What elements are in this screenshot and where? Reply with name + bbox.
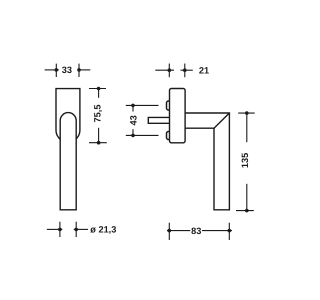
dimension 43 extension line bottom [126,134,159,136]
dimension 33 dot left [55,68,59,72]
svg-text:33: 33 [62,65,72,75]
handle front view: neck/shaft with rounded top edge [60,113,76,210]
svg-text:75,5: 75,5 [92,105,102,123]
svg-text:83: 83 [191,226,201,236]
rosette fixing tab top [167,101,170,110]
dimension dia 21,3 dot left [58,228,62,232]
dimension 135 bottom cross [236,210,254,212]
dimension 43 dot top [131,104,135,108]
rosette fixing tab bottom [167,132,170,140]
dimension dia 21,3 dot right [74,228,78,232]
dimension 75,5 top cross [89,88,106,90]
dimension 21 extension line left [168,64,170,78]
dimension 33 line segments [45,69,91,71]
dimension 33 extension line right [78,64,80,77]
dimension 75,5 bottom cross [89,142,107,144]
svg-text:43: 43 [129,115,139,125]
dimension 43 extension line top [126,104,159,106]
dimension 43 vertical line segments [132,105,134,135]
dimension 135 dot bottom [245,209,249,213]
dimension dia 21,3 line segments [47,228,88,230]
dimension 33 dot right [77,68,81,72]
svg-text:135: 135 [240,153,250,168]
dimension 33 extension line left [55,64,57,77]
dimension 21 extension line right [184,64,186,78]
dimension dia 21,3 extension line left [59,222,61,237]
svg-text:21: 21 [199,65,209,75]
dimension 21 dot left [168,68,172,72]
dimension 75,5 dot bottom [97,141,101,145]
dimension 83 extension line right [228,223,230,240]
dimension 21 dot right [183,68,187,72]
dimension 83 dot right [228,229,232,233]
dimension 83 line segments [167,230,232,232]
dimension 21 line segments [155,69,193,71]
handle front view: grip outer outline [56,89,80,140]
dimension 135 vertical line segments [246,113,248,211]
dimension 83 dot left [168,229,172,233]
dimension 75,5 vertical line [98,89,100,143]
dimension 83 extension line left [168,223,170,240]
dimension dia 21,3 extension line right [75,222,77,237]
dimension 75,5 dot top [97,87,101,91]
dimension 43 dot bottom [131,134,135,138]
svg-text:ø 21,3: ø 21,3 [90,225,116,235]
lever arm side view [185,113,229,210]
dimension 135 top cross [238,112,255,114]
dimension 135 dot top [245,111,249,115]
spindle square bar [148,117,169,123]
rosette side view [170,89,186,143]
